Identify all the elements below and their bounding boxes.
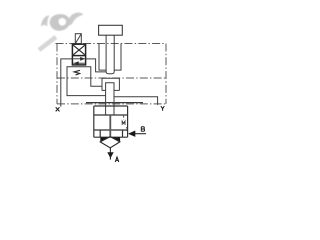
port label A xyxy=(115,157,119,162)
cartridge sleeve xyxy=(102,78,120,90)
wire: valve left port to X xyxy=(61,59,73,107)
pilot passage dashed arrow xyxy=(122,116,127,131)
pilot valve V1 body xyxy=(72,44,85,65)
pilot valve V1 closed position cross xyxy=(73,45,85,55)
wire: spring chamber channel box xyxy=(67,67,106,96)
stroke-limiter spindle stem xyxy=(106,35,114,73)
stroke-limiter spindle cap xyxy=(99,25,123,35)
boundary right (dash-dot) xyxy=(165,44,167,104)
manifold surface line xyxy=(86,102,143,104)
port label Y xyxy=(161,106,164,111)
boundary top (dash-dot) xyxy=(56,43,167,45)
pilot valve V1 actuator rect xyxy=(75,34,81,44)
seat triangle left xyxy=(100,137,109,142)
port label B xyxy=(141,127,144,132)
wire: Y pilot line xyxy=(114,97,158,105)
boundary left (dash-dot) xyxy=(56,44,58,104)
port A arrow xyxy=(109,148,111,160)
valve body block xyxy=(94,106,128,137)
cartridge poppet xyxy=(106,83,114,115)
pilot valve V1 flow arrows xyxy=(73,58,85,65)
poppet cone diamond xyxy=(100,137,120,148)
cover cavity walls xyxy=(99,44,121,71)
port B arrow xyxy=(134,133,146,135)
pilot valve V1 spring xyxy=(74,70,80,75)
wire: valve right port to spindle chamber xyxy=(86,59,106,72)
poppet stem xyxy=(109,115,111,137)
boundary divider cover/block (dash-dot) xyxy=(57,77,166,79)
boundary bottom (dash-dot) xyxy=(57,103,166,105)
port label X xyxy=(56,107,60,111)
seat triangle right xyxy=(111,137,120,142)
